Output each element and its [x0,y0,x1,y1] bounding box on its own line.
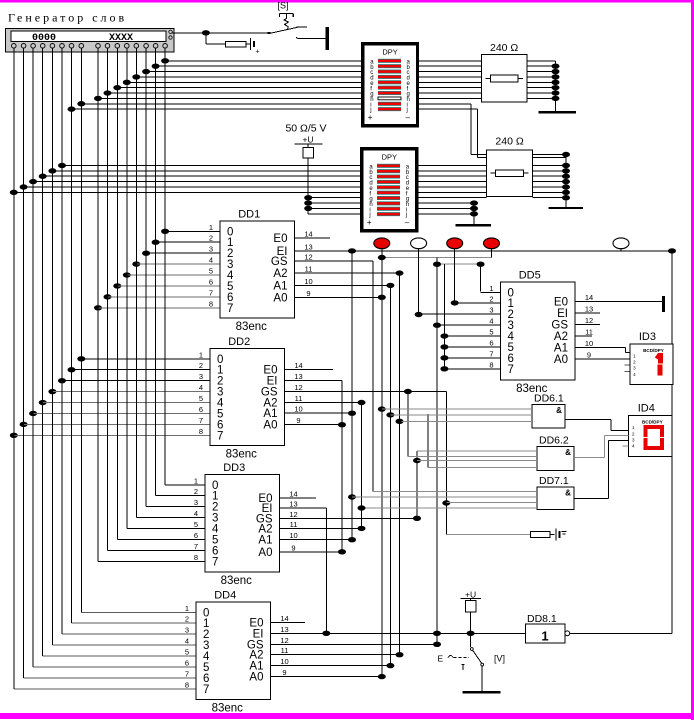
svg-text:A0: A0 [273,292,287,304]
svg-text:12: 12 [280,636,288,645]
svg-text:10: 10 [585,339,593,348]
svg-text:DD7.1: DD7.1 [539,475,569,487]
svg-text:1: 1 [194,476,198,485]
svg-text:A0: A0 [249,672,263,684]
svg-text:83enc: 83enc [226,449,258,461]
svg-text:A2: A2 [258,523,272,535]
svg-text:A0: A0 [554,354,568,366]
svg-text:ID4: ID4 [638,403,655,415]
svg-text:83enc: 83enc [236,321,268,333]
svg-text:7: 7 [209,288,213,297]
svg-text:DD6.1: DD6.1 [534,393,564,405]
svg-text:5: 5 [199,394,203,403]
svg-text:[V]: [V] [494,654,505,664]
svg-text:&: & [556,406,562,415]
svg-text:7: 7 [199,416,203,425]
svg-text:A0: A0 [263,420,277,432]
svg-text:A1: A1 [263,408,277,420]
svg-text:GS: GS [551,319,568,331]
svg-text:5: 5 [185,648,189,657]
svg-text:13: 13 [289,500,297,509]
svg-text:+: + [256,49,260,56]
svg-text:1: 1 [209,223,213,232]
svg-text:14: 14 [585,293,593,302]
svg-text:1: 1 [489,284,493,293]
svg-text:8: 8 [209,299,213,308]
svg-text:7: 7 [227,303,233,315]
svg-text:A2: A2 [554,331,568,343]
svg-text:14: 14 [294,361,302,370]
svg-text:9: 9 [587,350,591,359]
svg-text:A0: A0 [258,547,272,559]
svg-text:6: 6 [209,277,213,286]
svg-text:12: 12 [289,510,297,519]
svg-text:5: 5 [489,328,493,337]
svg-text:7: 7 [194,542,198,551]
svg-text:[S]: [S] [277,1,288,11]
svg-text:5: 5 [209,267,213,276]
svg-text:E0: E0 [554,297,568,309]
svg-text:11: 11 [305,265,313,274]
svg-text:E0: E0 [273,233,287,245]
svg-text:9: 9 [296,416,300,425]
svg-text:240 Ω: 240 Ω [495,136,523,148]
svg-text:DD8.1: DD8.1 [527,613,557,625]
svg-text:3: 3 [194,498,198,507]
svg-text:13: 13 [294,372,302,381]
svg-text:7: 7 [203,684,209,696]
svg-text:8: 8 [194,553,198,562]
svg-text:+: + [367,218,372,227]
svg-text:50 Ω/5 V: 50 Ω/5 V [285,123,326,135]
svg-text:&: & [565,448,571,457]
svg-text:1: 1 [185,604,189,613]
svg-text:9: 9 [282,668,286,677]
svg-text:Генератор слов: Генератор слов [8,11,127,25]
svg-text:9: 9 [306,289,310,298]
svg-text:4: 4 [489,317,493,326]
svg-text:7: 7 [217,430,223,442]
svg-text:6: 6 [199,405,203,414]
svg-text:BCD/DPY: BCD/DPY [643,348,664,353]
svg-text:2: 2 [199,361,203,370]
svg-text:10: 10 [289,531,297,540]
svg-text:ID3: ID3 [639,331,656,343]
svg-text:4: 4 [194,509,198,518]
svg-text:4: 4 [199,383,203,392]
svg-text:2: 2 [209,234,213,243]
svg-text:DD1: DD1 [238,209,260,221]
svg-text:11: 11 [585,327,593,336]
svg-text:14: 14 [304,230,312,239]
svg-text:EI: EI [557,308,568,320]
svg-text:3: 3 [209,245,213,254]
svg-text:5: 5 [194,520,198,529]
svg-text:7: 7 [489,349,493,358]
svg-text:–: – [406,113,411,122]
svg-text:7: 7 [508,364,514,376]
svg-text:83enc: 83enc [221,575,253,587]
svg-text:7: 7 [185,669,189,678]
svg-text:6: 6 [489,338,493,347]
svg-text:3: 3 [489,306,493,315]
svg-text:2: 2 [185,615,189,624]
svg-text:10: 10 [280,657,288,666]
svg-text:ХХХХ: ХХХХ [109,33,133,44]
svg-text:DD5: DD5 [519,270,541,282]
svg-text:+: + [368,113,373,122]
svg-text:DD4: DD4 [214,590,236,602]
svg-text:DPY: DPY [382,152,397,161]
svg-text:GS: GS [271,256,288,268]
svg-text:A1: A1 [273,280,287,292]
svg-text:11: 11 [295,394,303,403]
svg-text:4: 4 [185,637,189,646]
svg-text:2: 2 [489,295,493,304]
svg-text:Е: Е [438,654,444,664]
svg-text:BCD/DPY: BCD/DPY [642,420,663,425]
svg-text:12: 12 [294,383,302,392]
svg-text:83enc: 83enc [212,703,244,715]
svg-text:10: 10 [304,277,312,286]
svg-text:6: 6 [194,531,198,540]
svg-text:12: 12 [585,316,593,325]
svg-text:DD6.2: DD6.2 [539,435,569,447]
svg-text:8: 8 [199,427,203,436]
svg-text:8: 8 [185,680,189,689]
svg-text:14: 14 [289,490,297,499]
svg-text:13: 13 [280,625,288,634]
svg-text:14: 14 [280,614,288,623]
svg-text:6: 6 [185,658,189,667]
svg-text:13: 13 [304,242,312,251]
svg-text:3: 3 [185,626,189,635]
svg-text:9: 9 [291,543,295,552]
svg-text:A2: A2 [273,268,287,280]
svg-text:2: 2 [194,487,198,496]
svg-text:&: & [565,489,571,498]
svg-text:DPY: DPY [382,47,397,56]
svg-text:+U: +U [302,135,313,145]
svg-text:3: 3 [199,372,203,381]
svg-text:13: 13 [585,304,593,313]
svg-text:1: 1 [199,350,203,359]
svg-text:10: 10 [294,405,302,414]
svg-text:7: 7 [212,556,218,568]
svg-text:DD3: DD3 [223,462,245,474]
svg-text:DD2: DD2 [228,336,250,348]
svg-text:11: 11 [290,520,298,529]
svg-text:11: 11 [281,646,289,655]
svg-text:12: 12 [304,252,312,261]
svg-text:1: 1 [541,629,548,644]
svg-text:–: – [405,218,410,227]
svg-text:0000: 0000 [32,33,56,44]
svg-text:8: 8 [489,360,493,369]
svg-text:A1: A1 [258,535,272,547]
svg-text:240 Ω: 240 Ω [490,42,518,54]
svg-text:4: 4 [209,256,213,265]
svg-text:A1: A1 [554,342,568,354]
